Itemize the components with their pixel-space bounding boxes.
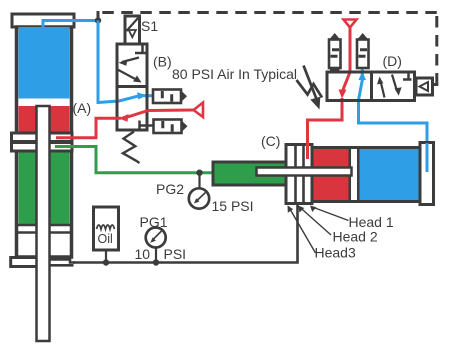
muffler M1 (top): [153, 90, 187, 104]
PG2 stem: [198, 173, 200, 189]
valve D plug symbol: [403, 72, 412, 80]
valve B body: [117, 44, 147, 130]
PG1 stem: [155, 248, 157, 263]
head leader 2: [299, 207, 331, 236]
valve B divider: [117, 85, 147, 88]
cylinder A bottom flange left: [11, 258, 37, 267]
muffler V2: [357, 33, 369, 68]
valve D pilot box: [416, 78, 433, 95]
PG2 junction dot: [196, 170, 202, 176]
cylinder A mid flange: [12, 133, 73, 151]
head leader 1: [311, 207, 349, 221]
svg-text:PG2: PG2: [156, 181, 184, 197]
cylinder C end cap: [420, 143, 434, 205]
svg-text:Head 2: Head 2: [333, 229, 378, 245]
svg-text:10: 10: [135, 246, 151, 262]
muffler M2 (bottom): [154, 120, 188, 134]
blue wire from A cap to junction: [43, 21, 98, 28]
muffler V1: [329, 33, 341, 72]
red wire into head: [306, 120, 309, 159]
cylinder C rod: [257, 168, 352, 176]
valve B spring: [123, 132, 140, 164]
svg-text:80 PSI Air In Typical: 80 PSI Air In Typical: [172, 66, 297, 82]
valve B lower plug to muffler: [140, 121, 155, 131]
cylinder A green chamber: [19, 151, 70, 225]
svg-text:(C): (C): [261, 133, 280, 149]
junction dot oil: [103, 259, 109, 265]
svg-text:15 PSI: 15 PSI: [212, 198, 254, 214]
blue wire valve D to cylinder C cap: [359, 100, 428, 172]
solenoid S1 box: [125, 16, 140, 44]
cylinder A mid flange divider bar: [12, 140, 73, 144]
open red arrowhead: [194, 103, 204, 118]
wire blue vertical down to valve B: [98, 21, 139, 103]
cylinder C piston lines: [349, 149, 352, 200]
blue wire tail inside cap: [426, 143, 429, 172]
cylinder C green tube: [213, 162, 286, 185]
red arrowhead in valve D (down): [339, 90, 347, 99]
cylinder C body: [312, 148, 421, 202]
svg-text:Head3: Head3: [315, 245, 356, 261]
head leader 3: [289, 207, 316, 254]
valve B upper left arrow: [122, 58, 139, 63]
red wire through valve B: [125, 111, 148, 118]
valve D body: [327, 72, 415, 101]
head internal bar 1: [294, 145, 297, 204]
cylinder A top cap: [12, 14, 74, 27]
cylinder C blue chamber: [360, 149, 422, 200]
valve B upper plug symbol: [135, 45, 146, 54]
svg-text:(D): (D): [383, 53, 402, 69]
red arrowhead at valve B left: [119, 114, 129, 122]
gauge PG2: [189, 188, 209, 208]
oil squiggle: [97, 225, 115, 229]
blue arrowhead into valve B port: [137, 92, 147, 99]
red supply wire with open arrow: [148, 109, 194, 113]
cylinder A piston 2 white band: [17, 225, 71, 233]
head internal bar 2: [302, 145, 305, 204]
dashed enclosure border: [97, 11, 100, 21]
svg-text:PSI: PSI: [164, 246, 187, 262]
blue wire muffler V2 down through valve D: [359, 68, 363, 100]
svg-text:S1: S1: [141, 18, 158, 34]
red wire down into valve D: [343, 28, 351, 92]
cylinder A bottom flange right step: [50, 260, 75, 263]
red wire valve D to cylinder C head: [308, 98, 343, 159]
black wire bottom: [73, 204, 298, 263]
junction dot PG1: [153, 259, 159, 265]
cylinder A red chamber: [19, 106, 70, 133]
oil reservoir: [94, 207, 119, 250]
pilot triangle: [420, 82, 429, 91]
valve B upper diagonal arrow: [118, 70, 139, 81]
svg-text:(B): (B): [153, 54, 172, 70]
cylinder A piston 1 white band: [19, 99, 70, 107]
solenoid S1 triangle: [129, 30, 136, 37]
cylinder A piston rod: [37, 106, 50, 341]
gauge PG1: [146, 228, 166, 248]
oil stem: [105, 250, 107, 263]
cylinder C head block: [286, 145, 312, 204]
valve D diag arrow down: [392, 75, 397, 92]
svg-text:Oil: Oil: [98, 232, 113, 246]
red wire valve B to cylinder A: [56, 118, 121, 138]
cylinder A blue chamber: [19, 27, 70, 99]
green wire cylinder A to tube C: [55, 147, 212, 173]
svg-text:(A): (A): [73, 100, 92, 116]
valve D divider: [370, 72, 373, 101]
cylinder C red chamber: [312, 149, 349, 200]
junction dot blue top: [95, 17, 101, 23]
wire blue valve B to muffler: [143, 94, 154, 97]
black supply arrow with zigzag: [297, 66, 323, 110]
blue arrowhead in valve D (up): [359, 72, 367, 81]
red open arrow top (down): [344, 20, 357, 28]
solenoid S1 diagonal: [127, 18, 139, 31]
valve D diag arrow up: [381, 81, 385, 98]
cylinder A body walls: [17, 27, 72, 257]
